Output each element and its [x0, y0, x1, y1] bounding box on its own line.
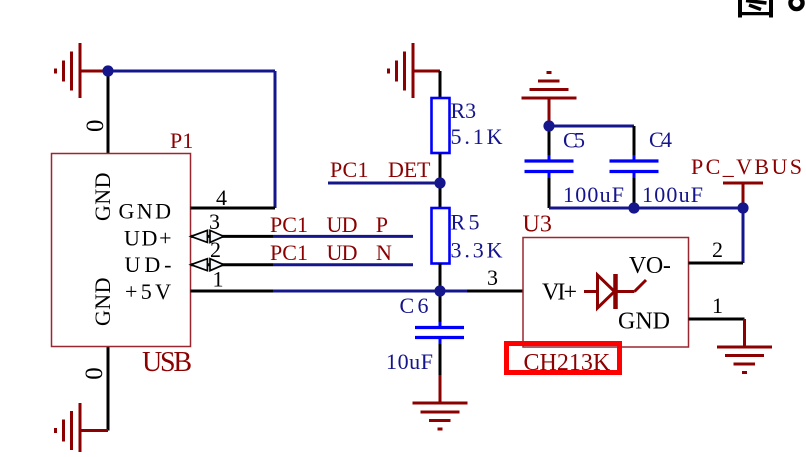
- capacitor C4: [633, 126, 636, 155]
- pin 4 of P1: [191, 207, 276, 210]
- ground top-left: [56, 43, 107, 98]
- pin 0 top of P1: [107, 71, 110, 154]
- svg-text:GND: GND: [119, 199, 172, 224]
- wire PC1 UD N: [273, 263, 413, 266]
- svg-text:1: 1: [712, 293, 723, 318]
- svg-text:2: 2: [210, 237, 221, 262]
- svg-text:3: 3: [487, 265, 498, 290]
- ground at U3 pin 1: [717, 319, 772, 373]
- svg-text:PC1UDN: PC1UDN: [270, 240, 392, 265]
- resistor R5: [432, 208, 450, 264]
- wire top horizontal: [108, 70, 275, 73]
- svg-text:VO-: VO-: [629, 253, 671, 279]
- wire PC_VBUS to pin 2: [742, 208, 745, 263]
- svg-text:4: 4: [216, 185, 227, 210]
- IC U3 body: [523, 238, 689, 348]
- svg-text:P1: P1: [170, 128, 193, 153]
- svg-text:100uF: 100uF: [642, 182, 703, 207]
- svg-text:USB: USB: [142, 347, 192, 378]
- pin 1 of U3: [689, 318, 745, 321]
- svg-text:0: 0: [81, 367, 108, 380]
- svg-text:2: 2: [712, 237, 723, 262]
- svg-text:PC1UDP: PC1UDP: [270, 212, 388, 237]
- junction dots: [102, 65, 113, 76]
- resistor R3: [432, 98, 450, 153]
- pin 0 bottom of P1: [107, 347, 110, 431]
- wire PC1 DET: [328, 182, 440, 185]
- svg-text:GND: GND: [90, 278, 115, 327]
- wire C5 to C4 top: [549, 125, 634, 128]
- svg-text:U3: U3: [523, 212, 552, 238]
- wire R3 to junction: [439, 153, 442, 183]
- wire +5V net horizontal: [273, 290, 467, 293]
- ground above C5: [522, 73, 577, 127]
- svg-text:3: 3: [209, 209, 220, 234]
- svg-text:C5: C5: [563, 128, 585, 153]
- capacitor C6: [439, 291, 442, 322]
- highlight box CH213K: [507, 344, 620, 373]
- svg-text:C6: C6: [400, 293, 429, 318]
- svg-text:GND: GND: [90, 173, 115, 222]
- capacitor C5: [548, 126, 551, 155]
- pin 1 of P1: [191, 290, 274, 293]
- partial figure caption icon top-right: [738, 0, 803, 18]
- ground below C6: [413, 375, 468, 429]
- svg-text:R3: R3: [451, 98, 477, 123]
- wire R5 to junction: [439, 264, 442, 292]
- svg-text:0: 0: [82, 120, 109, 133]
- svg-text:5.1K: 5.1K: [451, 124, 503, 149]
- svg-text:CH213K: CH213K: [524, 350, 611, 376]
- ground above R3: [389, 43, 441, 98]
- svg-text:PC1DET: PC1DET: [330, 157, 431, 182]
- wire junction to R5: [439, 183, 442, 208]
- svg-text:PC_VBUS: PC_VBUS: [691, 154, 802, 179]
- wire ground to R3: [439, 71, 442, 98]
- svg-text:C4: C4: [649, 127, 672, 152]
- ground bottom-left: [56, 403, 109, 457]
- diode inside U3: [584, 274, 646, 309]
- svg-text:1: 1: [213, 267, 224, 292]
- svg-text:UD+: UD+: [124, 226, 172, 251]
- pin 3 of U3: [467, 290, 523, 293]
- svg-text:VI+: VI+: [542, 280, 577, 306]
- pin 2 of P1 with IO arrow: [191, 263, 273, 266]
- svg-text:R5: R5: [451, 210, 480, 235]
- wire PC1 UD P: [273, 235, 413, 238]
- wire vertical to pin 4: [274, 71, 277, 208]
- svg-text:+5V: +5V: [125, 279, 171, 304]
- pin 2 of U3: [689, 262, 744, 265]
- svg-text:100uF: 100uF: [563, 182, 624, 207]
- svg-text:GND: GND: [618, 309, 670, 335]
- svg-text:3.3K: 3.3K: [451, 238, 503, 263]
- wire bottom of C5/C4 to PC_VBUS: [549, 207, 743, 210]
- pin 3 of P1 with IO arrow: [191, 235, 273, 238]
- connector P1 body: [52, 154, 191, 347]
- svg-text:UD-: UD-: [125, 252, 172, 277]
- svg-text:10uF: 10uF: [386, 349, 433, 374]
